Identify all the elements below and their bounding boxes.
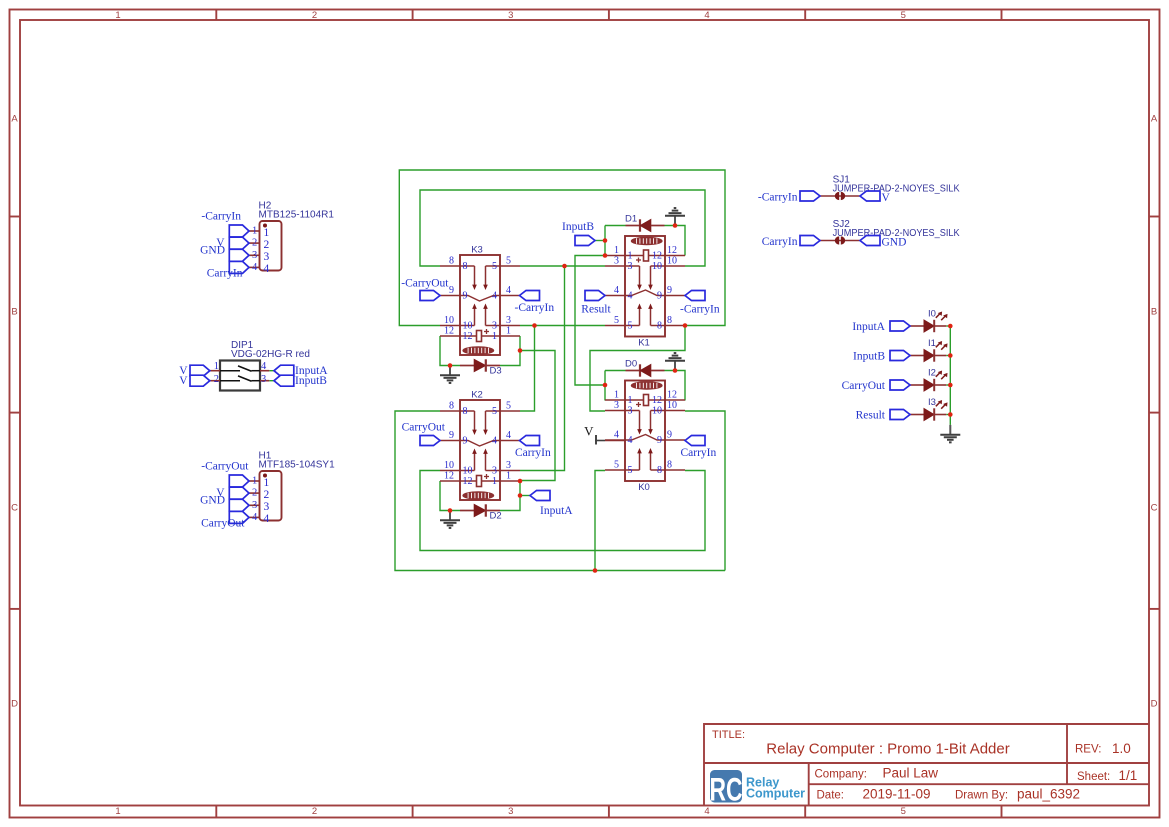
port -CarryOut at K3.9 [401,278,449,301]
svg-text:1: 1 [264,227,270,239]
svg-text:-CarryIn: -CarryIn [758,191,798,203]
I1 port InputB [853,350,910,362]
svg-text:5: 5 [492,406,497,417]
I3 port Result [856,409,910,421]
svg-text:4: 4 [264,263,270,275]
wire [269,380,274,382]
svg-text:Date:: Date: [817,790,845,802]
junction [603,253,608,258]
svg-text:8: 8 [449,401,454,412]
power flag V at K0.4 [584,424,625,445]
svg-text:GND: GND [200,494,225,506]
svg-text:CarryOut: CarryOut [842,380,886,392]
svg-text:3: 3 [628,261,633,272]
K3 pin numbers [444,256,511,343]
junction [673,368,678,373]
svg-text:3: 3 [252,250,257,261]
svg-text:5: 5 [628,465,633,476]
svg-text:V: V [179,375,188,387]
port -CarryIn at K1.9 [680,291,720,316]
svg-text:10: 10 [444,460,454,471]
svg-text:1: 1 [614,390,619,401]
K2 pin numbers [444,401,511,488]
port -CarryIn at K3.4 [515,291,555,315]
svg-text:3: 3 [492,321,497,332]
svg-text:4: 4 [628,435,633,446]
svg-text:GND: GND [882,236,907,248]
svg-text:1: 1 [115,806,120,817]
svg-text:1: 1 [506,471,511,482]
svg-text:5: 5 [614,315,619,326]
svg-text:TITLE:: TITLE: [712,729,745,741]
junction [603,238,608,243]
switch DIP1 [210,361,270,391]
svg-text:D: D [11,699,18,710]
svg-text:1: 1 [115,10,120,21]
svg-text:10: 10 [667,256,677,267]
svg-text:5: 5 [492,261,497,272]
SJ1 left port -CarryIn [758,191,820,203]
wire [604,226,606,256]
relay K1 [605,236,685,337]
svg-text:CarryIn: CarryIn [762,236,798,248]
svg-text:12: 12 [463,476,473,487]
K0 pin numbers [614,390,677,477]
SJ2 right port GND [860,236,906,249]
wire [420,190,705,266]
svg-text:12: 12 [463,331,473,342]
svg-text:1: 1 [506,326,511,337]
svg-text:8: 8 [657,465,662,476]
wire [665,226,686,256]
svg-text:1: 1 [614,245,619,256]
junction [673,223,678,228]
svg-text:I3: I3 [928,397,936,408]
SJ2 left port CarryIn [762,236,820,248]
svg-text:4: 4 [704,806,709,817]
svg-text:4: 4 [252,262,258,273]
svg-text:2: 2 [264,239,270,251]
LED I0 [910,312,948,333]
I0 port InputA [852,321,910,333]
svg-text:1: 1 [252,476,257,487]
connector H1 [249,471,282,521]
svg-text:1.0: 1.0 [1112,741,1131,756]
svg-text:3: 3 [261,374,266,385]
svg-text:C: C [11,503,18,514]
svg-text:9: 9 [667,430,672,441]
svg-text:MTF185-104SY1: MTF185-104SY1 [259,460,336,471]
svg-text:V: V [882,192,891,204]
svg-text:8: 8 [667,460,672,471]
svg-text:I1: I1 [928,338,936,349]
diode D2 [460,504,500,516]
svg-text:CarryIn: CarryIn [515,447,551,459]
jumper SJ2 [820,236,860,244]
svg-text:3: 3 [614,400,619,411]
wire [440,481,460,511]
svg-text:5: 5 [506,401,511,412]
svg-text:InputA: InputA [540,505,573,517]
svg-text:4: 4 [264,513,270,525]
svg-text:Relay Computer : Promo 1-Bit A: Relay Computer : Promo 1-Bit Adder [766,741,1009,758]
svg-text:CarryIn: CarryIn [207,267,243,279]
svg-text:MTB125-1104R1: MTB125-1104R1 [259,210,335,221]
LED I1 [910,341,948,362]
LED I3 [910,400,948,421]
svg-text:5: 5 [506,256,511,267]
svg-text:4: 4 [492,291,497,302]
DIP1 left V flags [190,365,210,386]
svg-text:12: 12 [444,326,454,337]
svg-text:I2: I2 [928,367,936,378]
svg-text:K0: K0 [638,482,650,493]
svg-text:5: 5 [614,460,619,471]
wire [500,336,520,366]
svg-text:1: 1 [214,361,219,372]
junction [518,493,523,498]
svg-text:A: A [1151,114,1158,125]
svg-text:2: 2 [252,488,257,499]
junction [603,383,608,388]
svg-text:2: 2 [312,10,317,21]
svg-text:3: 3 [506,460,511,471]
svg-text:CarryOut: CarryOut [402,422,446,434]
diode D3 [460,359,500,371]
svg-text:D3: D3 [490,366,502,377]
svg-text:12: 12 [652,395,662,406]
svg-text:D0: D0 [625,359,637,370]
junction [562,264,567,269]
wire [575,256,605,386]
H2 pin numbers [252,226,269,276]
wire [500,481,520,511]
svg-text:1: 1 [628,251,633,262]
svg-text:5: 5 [901,806,906,817]
wire [520,325,605,327]
wire [949,326,951,425]
svg-text:3: 3 [508,806,513,817]
junction [518,348,523,353]
wire [946,384,950,386]
svg-text:InputB: InputB [853,350,885,362]
connector H2 [249,221,282,271]
K1 pin numbers [614,245,677,332]
svg-text:8: 8 [463,406,468,417]
svg-text:1/1: 1/1 [1119,768,1138,783]
svg-text:InputB: InputB [295,375,327,387]
ground near D2 [440,511,460,528]
port CarryOut at K2.9 [402,422,446,446]
ground near D3 [440,366,460,383]
svg-text:InputB: InputB [562,221,594,233]
svg-text:CarryIn: CarryIn [681,447,717,459]
port CarryIn at K2.4 [515,436,551,460]
relay K3 [440,255,520,355]
svg-text:1: 1 [492,476,497,487]
H2 net flags [229,225,249,273]
svg-text:4: 4 [261,361,267,372]
DIP1 right flags [274,365,294,386]
svg-text:paul_6392: paul_6392 [1017,787,1080,802]
junction [948,353,953,358]
DIP1 pin numbers [214,361,267,385]
wire [665,371,686,401]
svg-text:2019-11-09: 2019-11-09 [863,787,931,802]
ground below LEDs [940,425,960,442]
wire [269,370,274,372]
svg-text:-CarryIn: -CarryIn [201,211,241,223]
svg-text:9: 9 [657,435,662,446]
svg-text:4: 4 [614,430,619,441]
wire [440,336,460,366]
svg-text:1: 1 [628,395,633,406]
wire [595,240,605,242]
svg-text:3: 3 [508,10,513,21]
wire [685,411,725,571]
svg-text:9: 9 [449,285,454,296]
svg-text:K1: K1 [638,338,650,349]
svg-text:10: 10 [667,400,677,411]
wire [946,355,950,357]
wire [605,225,626,227]
wire [946,414,950,416]
svg-text:CarryOut: CarryOut [201,517,245,529]
svg-text:10: 10 [463,321,473,332]
I2 port CarryOut [842,380,910,392]
H1 pin numbers [252,476,269,526]
svg-text:-CarryIn: -CarryIn [680,304,720,316]
svg-text:9: 9 [463,436,468,447]
wire [520,266,565,471]
relay K0 [605,381,685,482]
port InputB at D1 [562,221,595,246]
ground above D1 [665,208,685,225]
wire [590,326,685,412]
svg-text:2: 2 [252,238,257,249]
junction [948,383,953,388]
svg-text:REV:: REV: [1075,744,1101,756]
svg-text:RC: RC [710,772,743,808]
svg-text:2: 2 [264,489,270,501]
svg-text:9: 9 [667,285,672,296]
svg-text:InputA: InputA [852,321,885,333]
wire [520,265,605,267]
svg-text:3: 3 [614,256,619,267]
svg-text:5: 5 [628,321,633,332]
junction [518,479,523,484]
svg-text:-CarryOut: -CarryOut [201,461,249,473]
wire [520,495,530,497]
svg-text:Sheet:: Sheet: [1077,771,1110,783]
svg-text:4: 4 [614,285,619,296]
svg-text:I0: I0 [928,308,936,319]
svg-text:C: C [1151,503,1158,514]
svg-text:12: 12 [667,390,677,401]
svg-text:3: 3 [628,406,633,417]
svg-text:4: 4 [628,291,633,302]
svg-text:8: 8 [463,261,468,272]
svg-text:2: 2 [312,806,317,817]
LED I2 [910,371,948,392]
svg-text:8: 8 [449,256,454,267]
junction [683,323,688,328]
junction [593,568,598,573]
junction [448,508,453,513]
junction [948,324,953,329]
svg-text:VDG-02HG-R red: VDG-02HG-R red [231,349,310,360]
svg-text:4: 4 [506,285,511,296]
ground above D0 [665,353,685,370]
svg-text:D: D [1151,699,1158,710]
svg-text:9: 9 [463,291,468,302]
svg-text:12: 12 [667,245,677,256]
wire [604,371,606,401]
wire [399,170,725,326]
wire [420,471,705,551]
svg-text:V: V [584,424,594,439]
H1 net flags [229,475,249,523]
svg-text:12: 12 [652,251,662,262]
svg-text:8: 8 [667,315,672,326]
svg-text:-CarryOut: -CarryOut [401,278,449,290]
diode D0 [626,364,665,376]
svg-text:D1: D1 [625,214,637,225]
svg-text:5: 5 [901,10,906,21]
svg-text:10: 10 [652,261,662,272]
svg-text:3: 3 [492,466,497,477]
svg-text:B: B [1151,307,1157,318]
svg-text:2: 2 [214,374,219,385]
svg-text:4: 4 [492,436,497,447]
port InputA at K2.1 [530,491,573,518]
svg-text:8: 8 [657,321,662,332]
svg-text:Computer: Computer [746,787,805,801]
svg-text:K3: K3 [471,245,483,256]
junction [948,412,953,417]
svg-text:3: 3 [252,500,257,511]
svg-text:3: 3 [506,315,511,326]
svg-text:1: 1 [252,226,257,237]
DIP1 V labels [179,365,188,387]
port Result at K1.4 [581,291,611,316]
svg-text:A: A [11,114,18,125]
svg-text:-CarryIn: -CarryIn [515,302,555,314]
svg-text:10: 10 [444,315,454,326]
svg-text:Company:: Company: [815,769,867,781]
relay K2 [440,400,520,500]
svg-text:Result: Result [856,409,886,421]
svg-text:9: 9 [657,291,662,302]
wire [605,370,626,372]
port CarryIn at K0.9 [681,436,717,460]
svg-text:JUMPER-PAD-2-NOYES_SILK: JUMPER-PAD-2-NOYES_SILK [833,183,960,194]
svg-text:B: B [11,307,17,318]
svg-text:Paul Law: Paul Law [883,766,939,781]
svg-text:Drawn By:: Drawn By: [955,790,1008,802]
H1 net labels [200,461,249,530]
wire [520,326,535,412]
svg-text:9: 9 [449,430,454,441]
svg-text:10: 10 [463,466,473,477]
svg-text:3: 3 [264,251,270,263]
SJ1 right port V [860,191,891,204]
wire [595,471,605,571]
junction [448,363,453,368]
H2 net labels [200,211,243,280]
svg-text:1: 1 [492,331,497,342]
svg-text:3: 3 [264,501,270,513]
svg-text:12: 12 [444,471,454,482]
svg-text:10: 10 [652,406,662,417]
diode D1 [626,219,665,231]
svg-text:4: 4 [704,10,709,21]
junction [532,323,537,328]
jumper SJ1 [820,192,860,200]
wire [395,411,725,571]
svg-text:4: 4 [252,512,258,523]
svg-text:D2: D2 [490,511,502,522]
svg-text:4: 4 [506,430,511,441]
svg-text:1: 1 [264,477,270,489]
svg-text:Result: Result [581,304,611,316]
svg-text:GND: GND [200,244,225,256]
svg-text:K2: K2 [471,390,483,401]
wire [520,351,555,481]
wire [946,325,950,327]
DIP1 output labels [295,365,328,387]
